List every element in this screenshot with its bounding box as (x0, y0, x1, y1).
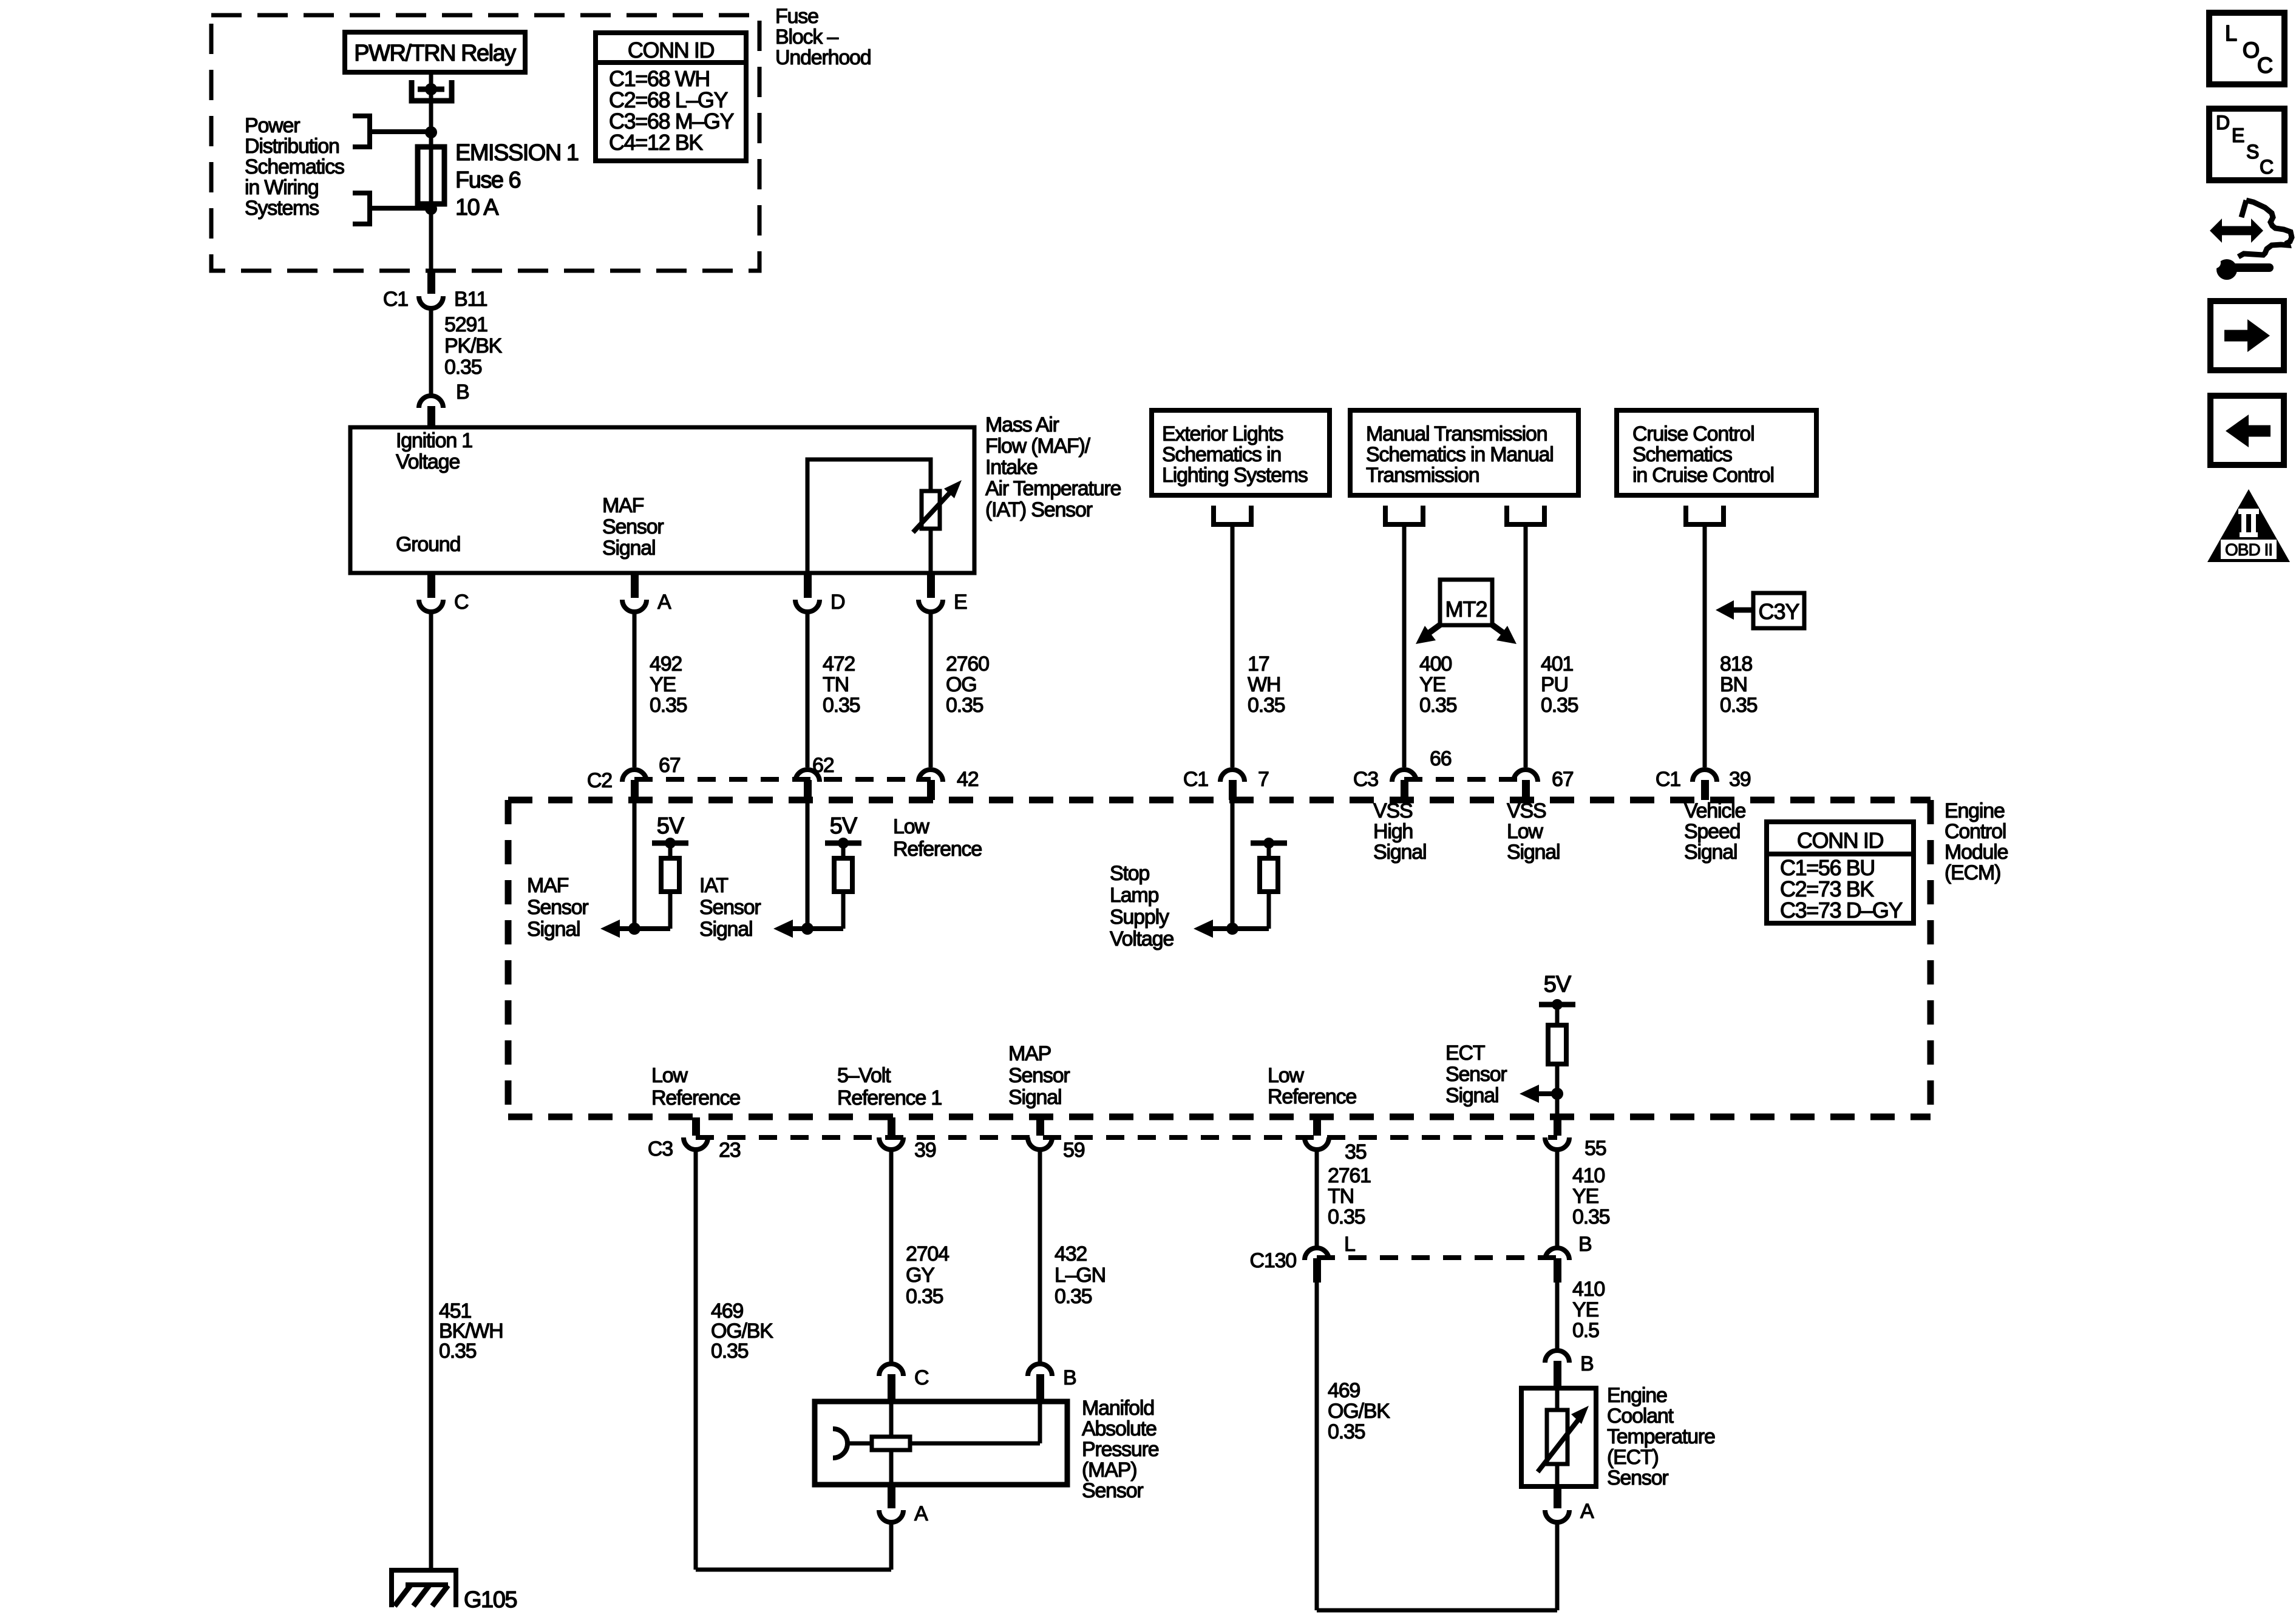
svg-text:Speed: Speed (1684, 820, 1740, 843)
svg-text:Temperature: Temperature (1607, 1425, 1715, 1448)
svg-text:Underhood: Underhood (775, 46, 871, 69)
svg-text:2761: 2761 (1328, 1164, 1371, 1187)
svg-text:39: 39 (914, 1139, 936, 1162)
svg-text:Signal: Signal (1008, 1086, 1061, 1109)
svg-text:Block –: Block – (775, 25, 838, 49)
svg-text:0.35: 0.35 (1572, 1205, 1610, 1229)
svg-text:Engine: Engine (1607, 1384, 1667, 1407)
svg-text:0.35: 0.35 (444, 356, 482, 379)
svg-text:S: S (2246, 141, 2259, 163)
svg-text:5V: 5V (657, 813, 685, 839)
svg-text:Ignition 1: Ignition 1 (396, 429, 472, 452)
svg-text:Signal: Signal (1373, 841, 1426, 864)
svg-text:High: High (1373, 820, 1413, 843)
svg-text:C2: C2 (587, 769, 612, 792)
svg-text:B: B (1578, 1233, 1591, 1256)
svg-text:5291: 5291 (444, 313, 487, 336)
svg-text:Reference 1: Reference 1 (837, 1086, 942, 1110)
svg-text:Voltage: Voltage (1110, 927, 1173, 951)
svg-text:410: 410 (1572, 1164, 1605, 1187)
svg-text:Signal: Signal (699, 918, 752, 941)
svg-text:B11: B11 (454, 288, 487, 311)
svg-text:G105: G105 (464, 1587, 517, 1613)
svg-text:Sensor: Sensor (1445, 1063, 1507, 1086)
svg-text:Intake: Intake (985, 456, 1038, 479)
svg-text:C1: C1 (1183, 768, 1208, 791)
svg-text:D: D (2216, 112, 2230, 134)
svg-text:Low: Low (651, 1064, 688, 1087)
svg-text:GY: GY (906, 1264, 934, 1287)
svg-text:C130: C130 (1250, 1249, 1297, 1272)
svg-text:YE: YE (650, 673, 676, 696)
svg-text:Distribution: Distribution (245, 135, 339, 158)
svg-text:Schematics in Manual: Schematics in Manual (1366, 443, 1554, 466)
svg-text:MAF: MAF (527, 874, 569, 897)
svg-text:Systems: Systems (245, 197, 319, 220)
svg-text:OG/BK: OG/BK (1328, 1400, 1390, 1423)
svg-text:0.5: 0.5 (1572, 1319, 1599, 1342)
svg-text:Stop: Stop (1110, 862, 1149, 885)
svg-text:Reference: Reference (651, 1086, 740, 1110)
svg-text:0.35: 0.35 (439, 1340, 477, 1363)
svg-text:Signal: Signal (1445, 1084, 1498, 1107)
svg-text:VSS: VSS (1507, 799, 1546, 822)
svg-text:Absolute: Absolute (1082, 1417, 1156, 1440)
svg-text:401: 401 (1541, 652, 1573, 676)
svg-text:Transmission: Transmission (1366, 464, 1479, 487)
svg-text:10 A: 10 A (455, 195, 499, 220)
svg-text:Exterior Lights: Exterior Lights (1162, 422, 1283, 446)
svg-text:Low: Low (1507, 820, 1543, 843)
svg-text:Power: Power (245, 114, 300, 137)
svg-text:Sensor: Sensor (527, 896, 588, 919)
svg-text:17: 17 (1248, 652, 1269, 676)
svg-text:Schematics: Schematics (245, 155, 344, 178)
svg-text:0.35: 0.35 (946, 694, 983, 717)
svg-text:in Cruise Control: in Cruise Control (1632, 464, 1774, 487)
svg-text:L–GN: L–GN (1055, 1264, 1106, 1287)
svg-text:0.35: 0.35 (1541, 694, 1578, 717)
svg-text:TN: TN (823, 673, 849, 696)
svg-text:EMISSION 1: EMISSION 1 (455, 140, 579, 166)
svg-text:Reference: Reference (893, 838, 982, 861)
svg-text:Control: Control (1944, 820, 2006, 843)
svg-text:469: 469 (1328, 1379, 1360, 1402)
svg-text:Air Temperature: Air Temperature (985, 477, 1121, 500)
svg-text:Module: Module (1944, 841, 2008, 864)
svg-text:Voltage: Voltage (396, 450, 460, 473)
svg-text:Signal: Signal (1507, 841, 1560, 864)
svg-text:35: 35 (1345, 1140, 1367, 1164)
svg-text:0.35: 0.35 (1248, 694, 1285, 717)
svg-text:PU: PU (1541, 673, 1568, 696)
svg-text:VSS: VSS (1373, 799, 1413, 822)
svg-text:Manifold: Manifold (1082, 1397, 1154, 1420)
svg-text:5V: 5V (830, 813, 858, 839)
svg-text:CONN ID: CONN ID (628, 38, 715, 63)
svg-text:62: 62 (812, 754, 834, 777)
svg-text:(ECT): (ECT) (1607, 1446, 1659, 1469)
svg-text:A: A (914, 1502, 928, 1525)
svg-text:0.35: 0.35 (1419, 694, 1457, 717)
svg-text:(IAT) Sensor: (IAT) Sensor (985, 498, 1093, 521)
svg-text:0.35: 0.35 (906, 1285, 943, 1308)
svg-text:C: C (914, 1366, 929, 1389)
svg-text:0.35: 0.35 (1055, 1285, 1092, 1308)
svg-text:Ground: Ground (396, 533, 460, 556)
svg-text:Signal: Signal (1684, 841, 1737, 864)
svg-text:Coolant: Coolant (1607, 1405, 1674, 1428)
svg-text:2760: 2760 (946, 652, 989, 676)
svg-text:BN: BN (1720, 673, 1747, 696)
svg-text:Vehicle: Vehicle (1684, 799, 1746, 822)
svg-text:ECT: ECT (1445, 1042, 1485, 1065)
svg-text:B: B (456, 381, 469, 404)
svg-text:Manual Transmission: Manual Transmission (1366, 422, 1547, 446)
svg-text:Cruise Control: Cruise Control (1632, 422, 1754, 446)
svg-text:C1: C1 (1656, 768, 1680, 791)
svg-text:0.35: 0.35 (711, 1340, 749, 1363)
svg-text:C3Y: C3Y (1758, 599, 1799, 624)
svg-text:5–Volt: 5–Volt (837, 1064, 891, 1087)
svg-text:Sensor: Sensor (1082, 1479, 1143, 1502)
svg-text:A: A (1580, 1500, 1594, 1523)
svg-text:59: 59 (1063, 1139, 1085, 1162)
svg-text:E: E (2232, 124, 2244, 146)
svg-text:C3: C3 (648, 1137, 673, 1161)
svg-text:C: C (2260, 156, 2274, 178)
svg-text:23: 23 (719, 1139, 741, 1162)
svg-text:492: 492 (650, 652, 682, 676)
svg-text:(ECM): (ECM) (1944, 861, 2000, 884)
svg-text:Low: Low (1268, 1064, 1304, 1087)
svg-text:0.35: 0.35 (1328, 1205, 1365, 1229)
svg-text:Pressure: Pressure (1082, 1438, 1159, 1461)
svg-text:818: 818 (1720, 652, 1752, 676)
svg-text:Sensor: Sensor (699, 896, 761, 919)
svg-text:L: L (1344, 1233, 1355, 1256)
svg-text:C1: C1 (383, 288, 408, 311)
svg-text:Signal: Signal (527, 918, 580, 941)
svg-text:2704: 2704 (906, 1242, 949, 1266)
svg-text:C4=12 BK: C4=12 BK (609, 130, 703, 155)
svg-text:67: 67 (659, 754, 681, 777)
svg-text:39: 39 (1729, 768, 1751, 791)
svg-text:0.35: 0.35 (1328, 1420, 1365, 1443)
svg-text:Signal: Signal (602, 537, 655, 560)
svg-text:D: D (830, 591, 844, 614)
svg-text:Flow (MAF)/: Flow (MAF)/ (985, 435, 1091, 458)
svg-text:Fuse 6: Fuse 6 (455, 168, 521, 193)
svg-text:Supply: Supply (1110, 906, 1169, 929)
svg-text:0.35: 0.35 (650, 694, 687, 717)
svg-text:YE: YE (1572, 1185, 1598, 1208)
svg-text:Sensor: Sensor (1607, 1466, 1668, 1490)
svg-text:OG: OG (946, 673, 977, 696)
svg-text:410: 410 (1572, 1278, 1605, 1301)
svg-text:OBD II: OBD II (2225, 540, 2272, 559)
svg-text:TN: TN (1328, 1185, 1354, 1208)
svg-text:Fuse: Fuse (775, 5, 818, 28)
svg-text:400: 400 (1419, 652, 1452, 676)
svg-text:L: L (2225, 21, 2237, 46)
svg-text:Schematics in: Schematics in (1162, 443, 1281, 466)
svg-text:Lamp: Lamp (1110, 884, 1159, 907)
svg-text:Reference: Reference (1268, 1085, 1356, 1108)
svg-text:B: B (1580, 1352, 1593, 1375)
svg-text:E: E (954, 591, 967, 614)
svg-text:Sensor: Sensor (1008, 1064, 1070, 1087)
svg-text:472: 472 (823, 652, 855, 676)
svg-text:Schematics: Schematics (1632, 443, 1732, 466)
svg-text:YE: YE (1572, 1298, 1598, 1321)
svg-text:in Wiring: in Wiring (245, 176, 318, 199)
svg-text:66: 66 (1430, 747, 1452, 770)
svg-text:55: 55 (1584, 1137, 1606, 1160)
svg-text:C3=73 D–GY: C3=73 D–GY (1780, 898, 1903, 923)
svg-text:A: A (657, 591, 671, 614)
svg-text:PWR/TRN Relay: PWR/TRN Relay (354, 41, 516, 66)
svg-text:MT2: MT2 (1445, 597, 1487, 622)
svg-text:0.35: 0.35 (1720, 694, 1758, 717)
svg-text:432: 432 (1055, 1242, 1087, 1266)
svg-text:7: 7 (1258, 768, 1269, 791)
svg-text:PK/BK: PK/BK (444, 334, 503, 358)
svg-text:WH: WH (1248, 673, 1280, 696)
svg-text:MAF: MAF (602, 494, 644, 517)
svg-text:Engine: Engine (1944, 799, 2005, 822)
svg-text:Sensor: Sensor (602, 515, 664, 538)
svg-text:Low: Low (893, 815, 929, 838)
svg-text:C: C (2257, 53, 2273, 78)
svg-text:Mass Air: Mass Air (985, 413, 1059, 436)
svg-text:5V: 5V (1544, 972, 1572, 997)
svg-text:C3: C3 (1353, 768, 1378, 791)
svg-text:MAP: MAP (1008, 1042, 1051, 1065)
svg-text:IAT: IAT (699, 874, 728, 897)
svg-text:42: 42 (957, 768, 979, 791)
svg-text:0.35: 0.35 (823, 694, 860, 717)
svg-text:C: C (454, 591, 469, 614)
svg-text:B: B (1063, 1366, 1076, 1389)
svg-text:(MAP): (MAP) (1082, 1459, 1136, 1482)
svg-text:YE: YE (1419, 673, 1445, 696)
svg-text:CONN ID: CONN ID (1797, 828, 1884, 853)
svg-text:Lighting Systems: Lighting Systems (1162, 464, 1308, 487)
svg-text:67: 67 (1552, 768, 1574, 791)
